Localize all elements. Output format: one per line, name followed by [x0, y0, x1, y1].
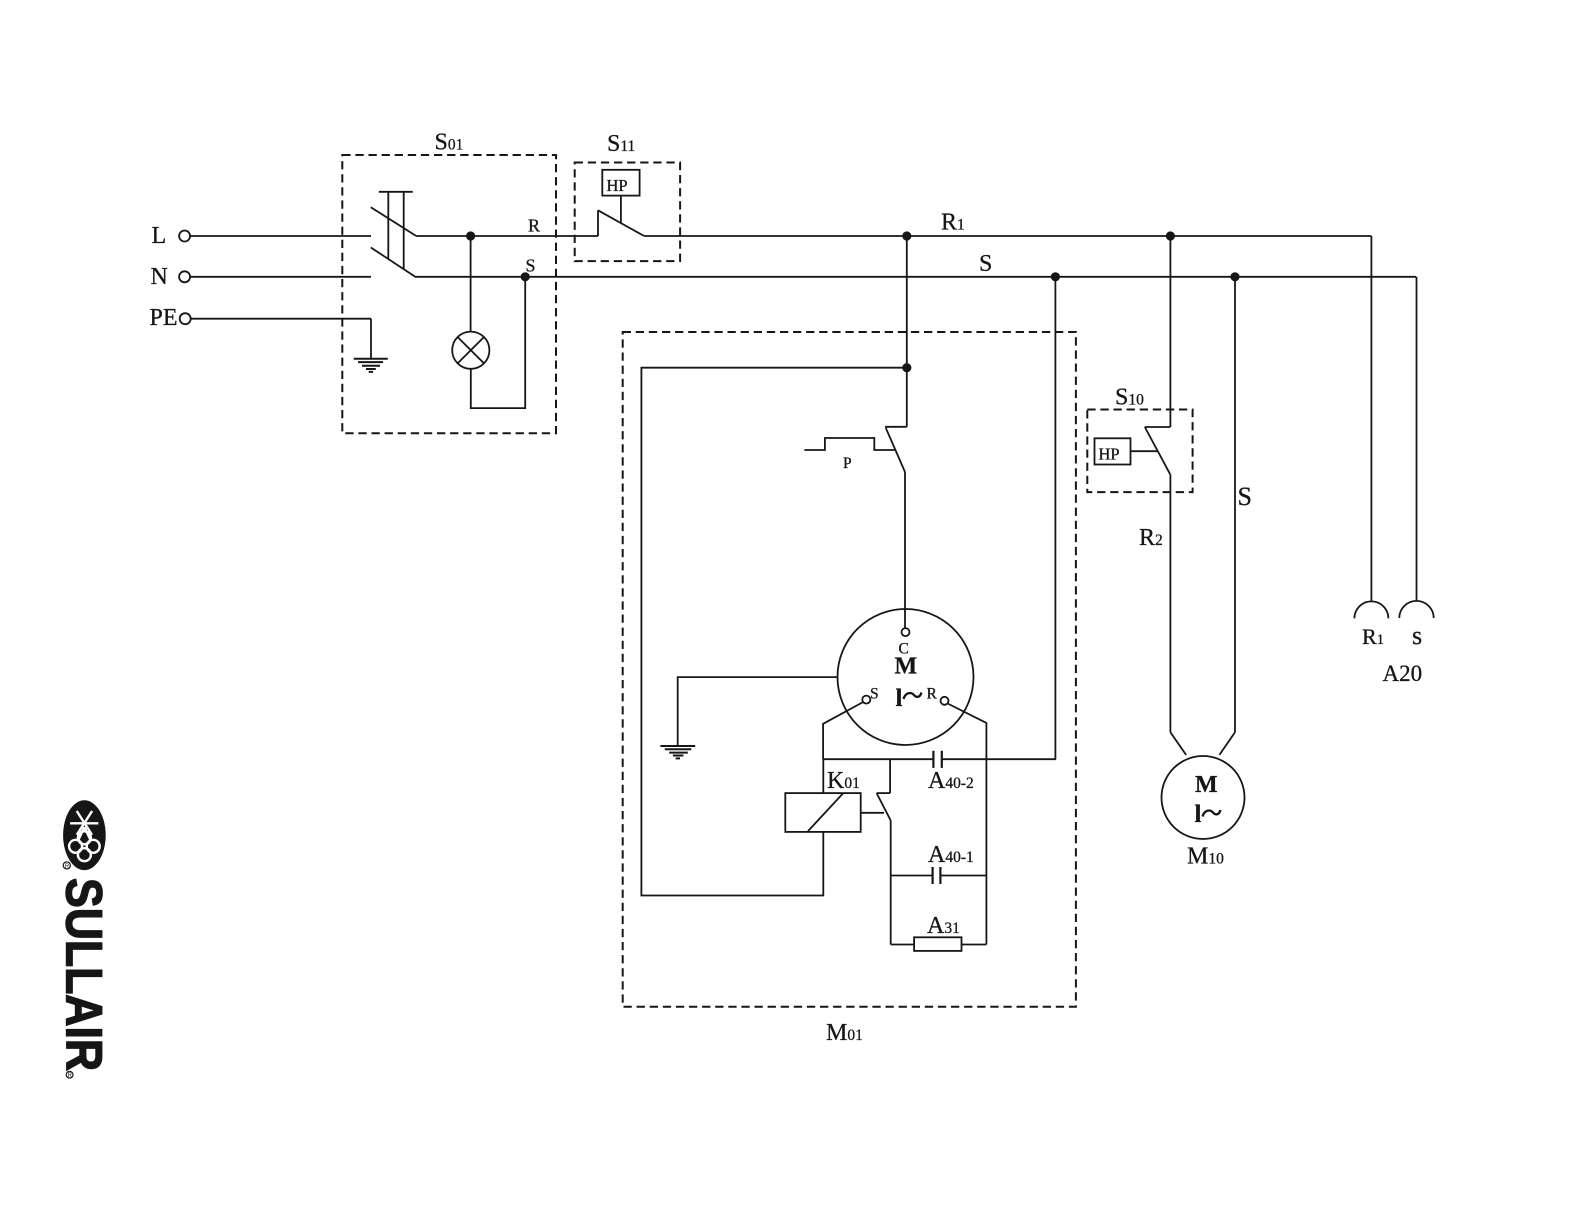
box M01 dashed	[623, 332, 1076, 1007]
node junction S-right	[1230, 272, 1239, 281]
HP lead S10	[1131, 450, 1159, 452]
HP box S10	[1095, 438, 1131, 464]
capacitor A40-1	[933, 867, 941, 884]
logo registered mark	[66, 1071, 73, 1079]
svg-text:HP: HP	[1099, 445, 1120, 464]
svg-text:R: R	[528, 216, 540, 236]
svg-text:l: l	[1195, 801, 1202, 828]
wire P to motor C	[904, 472, 906, 628]
svg-text:S: S	[526, 256, 536, 276]
HP lead S11	[620, 196, 622, 224]
node junction R-lamp	[466, 231, 475, 240]
wire S drop into M01	[1054, 277, 1056, 759]
motor M10 lead right	[1219, 732, 1235, 755]
logo SULLAIR text	[56, 878, 113, 1071]
svg-text:PE: PE	[150, 305, 178, 331]
relay K01 coil	[785, 793, 860, 832]
switch S10 blade	[1145, 427, 1171, 475]
box S11 dashed	[575, 163, 680, 262]
node junction R-M01	[902, 231, 911, 240]
wire R1 right drop	[1370, 236, 1372, 601]
pressure switch P jog	[885, 426, 907, 428]
wire S bus drop	[1234, 277, 1236, 732]
motor M01 terminal R	[941, 697, 949, 705]
svg-text:R: R	[65, 864, 70, 870]
wire A40-1 left	[891, 875, 933, 877]
terminal PE circle	[180, 313, 191, 324]
lamp H01 bottom lead	[471, 277, 525, 408]
lamp H01	[452, 332, 489, 369]
node junction R-S10	[1166, 231, 1175, 240]
wire R from S11 to corner	[644, 235, 1372, 237]
svg-text:HP: HP	[607, 176, 628, 195]
box S01 dashed	[342, 155, 556, 433]
svg-text:R: R	[927, 686, 938, 703]
wire A31 left	[891, 944, 914, 946]
motor R lead	[948, 704, 987, 945]
wire L	[190, 235, 371, 237]
motor M01 terminal S	[862, 696, 870, 704]
svg-text:M: M	[895, 654, 918, 680]
node junction M01 internal	[902, 363, 911, 372]
capacitor A40-2	[933, 751, 941, 768]
wire R from S01 to S11	[416, 235, 598, 237]
motor M10 circle	[1162, 756, 1245, 839]
svg-text:S: S	[979, 251, 992, 277]
svg-text:N: N	[151, 264, 168, 290]
svg-text:s: s	[1412, 621, 1422, 650]
wire M01 top-left branch	[641, 368, 906, 896]
contact K01 terminal	[889, 759, 891, 793]
wire A40-2 to S drop	[942, 758, 1056, 760]
svg-text:R: R	[68, 1073, 73, 1079]
wire S from S01 to corner	[416, 276, 1416, 278]
switch S10 jog	[1145, 426, 1171, 428]
pressure switch P lead	[906, 368, 908, 427]
wire A40-1 right	[940, 875, 986, 877]
wire start branch horizontal	[823, 758, 933, 760]
svg-text:L: L	[152, 223, 167, 249]
switch S01 pole linkage T-bar	[379, 192, 413, 269]
connector s socket	[1399, 601, 1433, 618]
node junction S-M01	[1051, 272, 1060, 281]
svg-text:l: l	[896, 685, 903, 712]
wire R2 top	[1169, 236, 1171, 427]
pressure switch P actuator	[804, 438, 894, 450]
wire R2 bottom	[1169, 475, 1171, 733]
motor M01 circle	[838, 609, 974, 745]
motor M01 terminal C	[902, 628, 910, 636]
logo emblem Sullair	[63, 800, 106, 870]
relay K01 top lead	[822, 759, 824, 793]
wire A31 right	[962, 944, 987, 946]
svg-text:S: S	[870, 686, 879, 703]
svg-text:S: S	[1238, 482, 1252, 511]
wire s right drop	[1416, 277, 1418, 600]
svg-text:M: M	[1195, 772, 1218, 798]
connector R1 socket	[1354, 601, 1388, 618]
wire R drop into M01	[906, 236, 908, 368]
svg-text:A20: A20	[1383, 661, 1423, 686]
motor S lead	[823, 702, 863, 759]
ground PE symbol	[354, 359, 388, 372]
PE ground vertical	[370, 319, 372, 359]
relay K01 link	[861, 812, 884, 814]
ground motor frame	[660, 746, 695, 758]
switch S11 blade	[598, 210, 644, 236]
switch S11 stub	[597, 210, 599, 236]
wire contact down	[890, 821, 892, 945]
wire N	[190, 276, 371, 278]
svg-text:SULLAIR: SULLAIR	[56, 878, 113, 1071]
node junction S-lamp	[521, 272, 530, 281]
contact K01 notch	[877, 792, 891, 794]
svg-text:P: P	[843, 455, 852, 472]
wire PE	[191, 318, 371, 320]
box S10 dashed	[1087, 410, 1192, 493]
pressure switch P blade	[886, 428, 905, 472]
HP box S11	[602, 170, 639, 196]
resistor A31	[914, 937, 961, 951]
contact K01 blade	[877, 793, 891, 820]
terminal N circle	[179, 271, 190, 282]
motor M10 lead left	[1170, 732, 1186, 755]
motor frame wire	[678, 677, 838, 746]
switch S01 upper blade	[371, 207, 416, 236]
terminal L circle	[179, 231, 190, 242]
lamp H01 top lead	[470, 236, 472, 332]
switch S01 lower blade	[371, 248, 416, 278]
